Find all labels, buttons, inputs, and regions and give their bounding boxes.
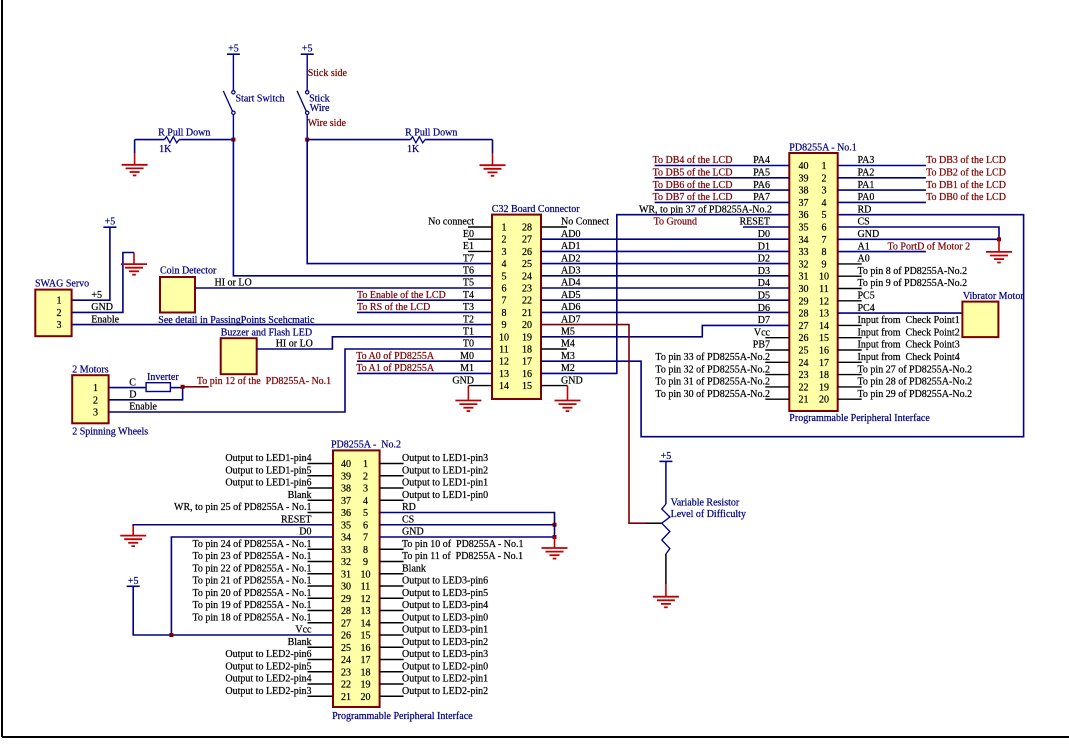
svg-text:27: 27 — [799, 321, 809, 332]
resistor R Pull Down 1K (right) — [411, 137, 426, 143]
svg-text:To DB0 of the LCD: To DB0 of the LCD — [926, 192, 1006, 203]
svg-text:To RS of the LCD: To RS of the LCD — [357, 302, 430, 313]
wire R pull down left — [135, 140, 234, 153]
svg-text:37: 37 — [799, 198, 809, 209]
pin number SWAG 3 — [57, 320, 62, 331]
svg-text:T5: T5 — [463, 278, 474, 289]
svg-text:36: 36 — [341, 508, 351, 519]
label To Enable of the LCD — [357, 290, 446, 301]
svg-text:PA7: PA7 — [753, 192, 770, 203]
svg-text:To pin 24 of PD8255A - No.1: To pin 24 of PD8255A - No.1 — [192, 539, 311, 550]
sheet border bottom — [2, 736, 1069, 738]
svg-text:25: 25 — [799, 346, 809, 357]
svg-text:M5: M5 — [561, 327, 575, 338]
svg-text:To DB3 of the LCD: To DB3 of the LCD — [926, 155, 1006, 166]
svg-text:17: 17 — [361, 655, 371, 666]
svg-text:39: 39 — [799, 173, 809, 184]
label See detail in PassingPoints — [158, 315, 315, 326]
ground (C32 right GND) — [555, 386, 581, 412]
ground (variable resistor) — [653, 584, 679, 607]
svg-text:GND: GND — [561, 375, 583, 386]
svg-text:PC5: PC5 — [858, 291, 875, 302]
pin number motors 1 — [93, 383, 98, 394]
svg-text:24: 24 — [799, 358, 809, 369]
power +5 (start switch) — [227, 44, 240, 55]
svg-text:To pin 18 of PD8255A - No.1: To pin 18 of PD8255A - No.1 — [192, 612, 311, 623]
svg-text:28: 28 — [341, 606, 351, 617]
svg-text:AD2: AD2 — [561, 253, 580, 264]
label PD8255A - No.2 — [331, 439, 401, 450]
wire RESET No.1 — [743, 226, 789, 228]
svg-text:To pin 9 of PD8255A-No.2: To pin 9 of PD8255A-No.2 — [858, 278, 968, 289]
wire C32 GND right stub — [541, 385, 568, 387]
svg-text:Wire: Wire — [310, 103, 330, 114]
svg-text:To DB6 of the LCD: To DB6 of the LCD — [653, 180, 733, 191]
connector SWAG Servo box — [35, 290, 71, 337]
svg-text:Blank: Blank — [288, 637, 312, 648]
svg-text:To pin 27 of PD8255A-No.2: To pin 27 of PD8255A-No.2 — [858, 364, 973, 375]
svg-text:Output to LED1-pin2: Output to LED1-pin2 — [402, 465, 488, 476]
wire motors pin3 Enable to T0 — [109, 349, 492, 412]
pin number SWAG 2 — [57, 308, 62, 319]
svg-text:T6: T6 — [463, 266, 474, 277]
svg-text:6: 6 — [502, 284, 507, 295]
svg-text:Output to LED1-pin1: Output to LED1-pin1 — [402, 478, 488, 489]
label 1K left — [159, 144, 172, 155]
wire CS No.2 — [380, 524, 555, 526]
svg-text:PA1: PA1 — [858, 180, 875, 191]
svg-text:33: 33 — [341, 545, 351, 556]
junction CS/GND No.1 — [997, 237, 1001, 241]
svg-text:PA6: PA6 — [753, 180, 770, 191]
svg-text:Output to LED2-pin1: Output to LED2-pin1 — [402, 674, 488, 685]
labels C32 left pin names — [428, 217, 474, 387]
stubs PD8255A-No.2 right — [380, 464, 404, 697]
wire variable resistor tap — [646, 522, 662, 524]
svg-text:2: 2 — [822, 173, 827, 184]
sheet border left — [1, 0, 3, 737]
svg-text:D0: D0 — [758, 229, 770, 240]
wires PA3-PA0 to LCD — [838, 166, 926, 203]
label +5 (SWAG pin1) — [91, 290, 102, 301]
label Stick side — [308, 68, 348, 79]
svg-text:+5: +5 — [128, 576, 139, 587]
svg-text:Output to LED2-pin4: Output to LED2-pin4 — [225, 674, 311, 685]
svg-text:4: 4 — [363, 496, 368, 507]
svg-text:Programmable Peripheral Interf: Programmable Peripheral Interface — [789, 413, 930, 424]
svg-text:7: 7 — [822, 235, 827, 246]
svg-text:HI or LO: HI or LO — [215, 278, 252, 289]
svg-text:To pin 11 of PD8255A - No.1: To pin 11 of PD8255A - No.1 — [402, 551, 523, 562]
label Stick — [309, 93, 330, 104]
svg-text:+5: +5 — [228, 44, 239, 55]
svg-text:Output to LED3-pin0: Output to LED3-pin0 — [402, 612, 488, 623]
svg-text:37: 37 — [341, 496, 351, 507]
svg-text:PD8255A - No.1: PD8255A - No.1 — [789, 143, 857, 154]
wire RD No.2 — [380, 513, 555, 525]
svg-text:28: 28 — [522, 223, 532, 234]
svg-text:21: 21 — [522, 308, 532, 319]
svg-text:PA0: PA0 — [858, 192, 875, 203]
label Coin Detector — [160, 266, 217, 277]
ground (No.2 GND) — [542, 537, 568, 559]
switch SW2 Stick Wire — [297, 54, 309, 139]
svg-text:CS: CS — [402, 514, 414, 525]
svg-text:11: 11 — [819, 284, 829, 295]
labels To DB3-DB0 of the LCD — [926, 155, 1006, 203]
label Vibrator Motor — [963, 291, 1024, 302]
svg-text:PD8255A - No.2: PD8255A - No.2 — [331, 439, 401, 450]
pin number SWAG 1 — [57, 296, 62, 307]
svg-text:Output to LED2-pin0: Output to LED2-pin0 — [402, 661, 488, 672]
label 1K right — [407, 144, 420, 155]
svg-text:T1: T1 — [463, 327, 474, 338]
svg-text:14: 14 — [499, 381, 509, 392]
wire GND No.2 — [380, 525, 555, 538]
wire M1 to A1 — [357, 372, 492, 374]
label Programmable Peripheral Interface (No.2) — [332, 711, 473, 722]
svg-text:27: 27 — [522, 235, 532, 246]
svg-text:To A1 of PD8255A: To A1 of PD8255A — [356, 363, 435, 374]
svg-text:20: 20 — [522, 320, 532, 331]
svg-text:Input from Check Point4: Input from Check Point4 — [858, 352, 960, 363]
svg-text:Coin Detector: Coin Detector — [160, 266, 217, 277]
svg-text:Level of Difficulty: Level of Difficulty — [671, 509, 746, 520]
wire motors pin1 C to inverter — [109, 387, 147, 389]
svg-text:15: 15 — [819, 333, 829, 344]
svg-text:D6: D6 — [758, 303, 770, 314]
svg-text:To DB7 of the LCD: To DB7 of the LCD — [653, 192, 733, 203]
svg-text:9: 9 — [502, 320, 507, 331]
svg-text:T7: T7 — [463, 253, 474, 264]
svg-text:M1: M1 — [460, 363, 474, 374]
svg-text:Programmable Peripheral Interf: Programmable Peripheral Interface — [332, 711, 473, 722]
svg-text:To DB5 of the LCD: To DB5 of the LCD — [653, 168, 733, 179]
svg-text:M0: M0 — [460, 351, 474, 362]
wire RESET No.2 to ground — [133, 525, 333, 527]
svg-text:D7: D7 — [758, 315, 770, 326]
svg-text:+5: +5 — [302, 44, 313, 55]
label To pin 12 of the PD8255A-No.1 — [197, 376, 331, 387]
connector 2 Motors box — [72, 375, 108, 423]
svg-text:Start Switch: Start Switch — [236, 93, 285, 104]
svg-text:To pin 29 of PD8255A-No.2: To pin 29 of PD8255A-No.2 — [858, 389, 973, 400]
label To Ground — [654, 217, 697, 228]
label Programmable Peripheral Interface (No.1) — [789, 413, 930, 424]
svg-text:21: 21 — [341, 692, 351, 703]
svg-text:AD4: AD4 — [561, 278, 580, 289]
svg-text:30: 30 — [799, 284, 809, 295]
svg-text:R Pull Down: R Pull Down — [405, 128, 457, 139]
svg-text:2: 2 — [57, 308, 62, 319]
svg-text:24: 24 — [341, 655, 351, 666]
wire variable resistor bottom — [665, 554, 667, 584]
labels To DB4-DB7 of the LCD — [653, 155, 733, 203]
wire D0 No.2 to Vcc rail — [171, 537, 333, 635]
svg-text:14: 14 — [819, 321, 829, 332]
svg-text:D0: D0 — [299, 527, 311, 538]
svg-text:19: 19 — [819, 382, 829, 393]
svg-text:9: 9 — [363, 557, 368, 568]
svg-text:To DB2 of the LCD: To DB2 of the LCD — [926, 168, 1006, 179]
svg-text:22: 22 — [799, 382, 809, 393]
svg-text:13: 13 — [361, 606, 371, 617]
svg-text:PA5: PA5 — [753, 168, 770, 179]
svg-text:Vcc: Vcc — [295, 625, 312, 636]
svg-text:Output to LED3-pin5: Output to LED3-pin5 — [402, 588, 488, 599]
svg-text:15: 15 — [522, 381, 532, 392]
svg-text:11: 11 — [361, 582, 371, 593]
svg-text:23: 23 — [799, 370, 809, 381]
svg-text:To Enable of the LCD: To Enable of the LCD — [357, 290, 446, 301]
svg-text:Enable: Enable — [129, 402, 157, 413]
junction switch1/pulldown — [231, 138, 235, 142]
svg-text:10: 10 — [819, 272, 829, 283]
ground (No.2 RESET) — [120, 526, 146, 547]
svg-text:Output to LED2-pin2: Output to LED2-pin2 — [402, 686, 488, 697]
svg-text:D2: D2 — [758, 254, 770, 265]
label HI or LO (coin) — [215, 278, 252, 289]
svg-text:+5: +5 — [91, 290, 102, 301]
label Wire side — [308, 118, 347, 129]
svg-text:PC4: PC4 — [858, 303, 875, 314]
svg-text:SWAG Servo: SWAG Servo — [35, 278, 89, 289]
svg-text:25: 25 — [341, 643, 351, 654]
svg-text:Input from Check Point1: Input from Check Point1 — [858, 315, 960, 326]
svg-text:34: 34 — [341, 533, 351, 544]
svg-text:4: 4 — [502, 259, 507, 270]
wire start switch to T6 — [233, 140, 492, 276]
wire AD7 to variable resistor tap — [541, 325, 646, 524]
svg-text:39: 39 — [341, 471, 351, 482]
svg-text:3: 3 — [822, 186, 827, 197]
svg-text:12: 12 — [499, 357, 509, 368]
svg-text:5: 5 — [363, 508, 368, 519]
label HI or LO (buzzer) — [276, 339, 313, 350]
label C (motors pin1) — [129, 377, 136, 388]
svg-text:1K: 1K — [407, 144, 420, 155]
wires AD0-AD6 data bus to PD8255A-No.1 — [541, 239, 789, 312]
block Vibrator Motor box — [962, 302, 998, 338]
stubs PD8255A-No.1 right — [838, 264, 862, 399]
svg-text:29: 29 — [799, 296, 809, 307]
svg-text:10: 10 — [361, 569, 371, 580]
svg-text:Output to LED3-pin1: Output to LED3-pin1 — [402, 625, 488, 636]
svg-text:Enable: Enable — [91, 314, 119, 325]
label GND (SWAG pin2) — [91, 302, 113, 313]
svg-text:To DB1 of the LCD: To DB1 of the LCD — [926, 180, 1006, 191]
svg-text:33: 33 — [799, 247, 809, 258]
label PD8255A - No.1 — [789, 143, 857, 154]
svg-text:6: 6 — [822, 223, 827, 234]
svg-text:AD6: AD6 — [561, 302, 580, 313]
svg-text:16: 16 — [819, 346, 829, 357]
svg-text:4: 4 — [822, 198, 827, 209]
svg-text:8: 8 — [822, 247, 827, 258]
svg-text:Buzzer and Flash LED: Buzzer and Flash LED — [221, 327, 312, 338]
svg-text:Blank: Blank — [402, 563, 426, 574]
svg-text:No connect: No connect — [428, 217, 474, 228]
wire coin detector to T5 — [195, 287, 492, 289]
stubs PD8255A-No.1 left — [765, 338, 789, 400]
svg-text:To pin 21 of PD8255A - No.1: To pin 21 of PD8255A - No.1 — [192, 576, 311, 587]
label Buzzer and Flash LED — [221, 327, 312, 338]
svg-text:38: 38 — [799, 186, 809, 197]
svg-text:CS: CS — [858, 217, 870, 228]
labels C32 right pin names — [561, 217, 609, 387]
connector C32 Board Connector box — [492, 215, 541, 399]
labels PD8255A-No.2 right pin names — [402, 453, 524, 697]
svg-text:AD7: AD7 — [561, 314, 580, 325]
svg-text:3: 3 — [363, 484, 368, 495]
svg-text:T2: T2 — [463, 314, 474, 325]
svg-text:WR, to pin 37 of PD8255A-No.2: WR, to pin 37 of PD8255A-No.2 — [639, 204, 772, 215]
IC PD8255A-No.1 box — [789, 153, 837, 411]
power +5 (PD8255A-No.2 Vcc) — [127, 576, 140, 587]
label R Pull Down left — [158, 128, 210, 139]
svg-text:PA3: PA3 — [858, 155, 875, 166]
svg-text:GND: GND — [91, 302, 113, 313]
svg-text:1K: 1K — [159, 144, 172, 155]
svg-text:2: 2 — [502, 235, 507, 246]
svg-text:Output to LED1-pin0: Output to LED1-pin0 — [402, 490, 488, 501]
svg-text:To DB4 of the LCD: To DB4 of the LCD — [653, 155, 733, 166]
svg-text:8: 8 — [363, 545, 368, 556]
svg-text:24: 24 — [522, 271, 532, 282]
label To RS of the LCD — [357, 302, 430, 313]
block Buzzer and Flash LED box — [221, 338, 257, 374]
label 2 Motors — [72, 365, 109, 376]
svg-text:Vcc: Vcc — [754, 327, 771, 338]
svg-text:Input from Check Point2: Input from Check Point2 — [858, 327, 960, 338]
svg-text:Output to LED2-pin5: Output to LED2-pin5 — [225, 661, 311, 672]
wire T3 to LCD RS — [357, 311, 492, 313]
svg-text:Wire side: Wire side — [308, 118, 347, 129]
svg-text:2 Motors: 2 Motors — [72, 365, 109, 376]
svg-text:D1: D1 — [758, 241, 770, 252]
wire +5 to variable resistor — [665, 461, 667, 504]
svg-text:32: 32 — [799, 259, 809, 270]
svg-text:RESET: RESET — [739, 217, 770, 228]
svg-text:7: 7 — [363, 533, 368, 544]
label Level of Difficulty — [671, 509, 746, 520]
wire A1 No.1 — [838, 251, 926, 253]
svg-text:C: C — [129, 377, 136, 388]
svg-text:6: 6 — [363, 520, 368, 531]
svg-text:GND: GND — [452, 375, 474, 386]
svg-text:18: 18 — [361, 667, 371, 678]
svg-text:To pin 20 of PD8255A - No.1: To pin 20 of PD8255A - No.1 — [192, 588, 311, 599]
stubs C32 pins 1-3 — [468, 227, 492, 251]
svg-text:40: 40 — [799, 161, 809, 172]
label SWAG Servo — [35, 278, 89, 289]
wire +5 to Vcc No.2 — [133, 586, 333, 635]
svg-text:AD5: AD5 — [561, 290, 580, 301]
svg-text:21: 21 — [799, 395, 809, 406]
svg-text:22: 22 — [341, 680, 351, 691]
labels PD8255A-No.1 left pin names — [639, 155, 772, 400]
svg-text:31: 31 — [799, 272, 809, 283]
svg-text:To pin 12 of the PD8255A- No.: To pin 12 of the PD8255A- No.1 — [197, 376, 331, 387]
svg-text:PA4: PA4 — [753, 155, 770, 166]
svg-text:26: 26 — [522, 247, 532, 258]
wire CS No.1 to ground — [838, 227, 999, 239]
label To A0 of PD8255A — [356, 351, 435, 362]
svg-text:18: 18 — [819, 370, 829, 381]
svg-text:36: 36 — [799, 210, 809, 221]
svg-text:1: 1 — [822, 161, 827, 172]
svg-text:To pin 8 of PD8255A-No.2: To pin 8 of PD8255A-No.2 — [858, 266, 968, 277]
svg-text:RD: RD — [858, 204, 872, 215]
label D (motors pin2) — [129, 390, 136, 401]
wire motors pin2 D to junction — [109, 387, 183, 400]
label Enable (SWAG pin3) — [91, 314, 119, 325]
svg-text:+5: +5 — [105, 217, 116, 228]
svg-text:AD3: AD3 — [561, 266, 580, 277]
svg-text:Output to LED2-pin3: Output to LED2-pin3 — [225, 686, 311, 697]
stubs PD8255A-No.2 left — [308, 464, 334, 697]
wire SWAG pin3 Enable to T2 — [72, 324, 492, 326]
ground (R pull down right) — [480, 153, 506, 176]
svg-text:E0: E0 — [463, 229, 474, 240]
wire stick switch to T7 — [307, 140, 492, 264]
wire C32 GND left stub — [468, 385, 492, 387]
svg-text:R Pull Down: R Pull Down — [158, 128, 210, 139]
svg-text:+5: +5 — [661, 451, 672, 462]
junction D0/Vcc No.2 — [169, 633, 173, 637]
svg-text:A1: A1 — [858, 241, 870, 252]
svg-text:Blank: Blank — [288, 490, 312, 501]
svg-text:To PortD of Motor 2: To PortD of Motor 2 — [888, 241, 971, 252]
svg-text:Output to LED2-pin6: Output to LED2-pin6 — [225, 649, 311, 660]
svg-text:M4: M4 — [561, 339, 575, 350]
wires PA4-PA7 to LCD — [655, 166, 790, 203]
svg-text:To A0 of PD8255A: To A0 of PD8255A — [356, 351, 435, 362]
svg-text:9: 9 — [822, 259, 827, 270]
svg-text:32: 32 — [341, 557, 351, 568]
svg-text:11: 11 — [499, 345, 509, 356]
power +5 (variable resistor) — [659, 451, 672, 462]
svg-text:2 Spinning Wheels: 2 Spinning Wheels — [72, 426, 148, 437]
svg-text:Inverter: Inverter — [147, 372, 179, 383]
svg-text:To Ground: To Ground — [654, 217, 697, 228]
resistor R variable (Level of Difficulty) — [662, 504, 670, 554]
pin number motors 2 — [93, 395, 98, 406]
pin numbers PD8255A-No.2 — [341, 459, 371, 703]
svg-text:35: 35 — [799, 223, 809, 234]
svg-text:Stick side: Stick side — [308, 68, 348, 79]
svg-text:To pin 30 of PD8255A-No.2: To pin 30 of PD8255A-No.2 — [655, 389, 770, 400]
svg-text:30: 30 — [341, 582, 351, 593]
wire T4 to LCD enable — [357, 299, 492, 301]
svg-text:A0: A0 — [858, 254, 870, 265]
junction inverter output — [181, 385, 185, 389]
svg-text:T0: T0 — [463, 339, 474, 350]
svg-text:23: 23 — [522, 284, 532, 295]
svg-text:26: 26 — [799, 333, 809, 344]
wire M0 to A0 — [357, 360, 492, 362]
svg-text:D4: D4 — [758, 278, 770, 289]
label Start Switch — [236, 93, 285, 104]
svg-text:GND: GND — [402, 527, 424, 538]
svg-text:27: 27 — [341, 618, 351, 629]
svg-text:M3: M3 — [561, 351, 575, 362]
svg-text:34: 34 — [799, 235, 809, 246]
svg-text:Output to LED1-pin4: Output to LED1-pin4 — [225, 453, 311, 464]
svg-text:PB7: PB7 — [753, 340, 770, 351]
wire SWAG pin2 to ground — [72, 253, 134, 313]
svg-text:5: 5 — [502, 271, 507, 282]
